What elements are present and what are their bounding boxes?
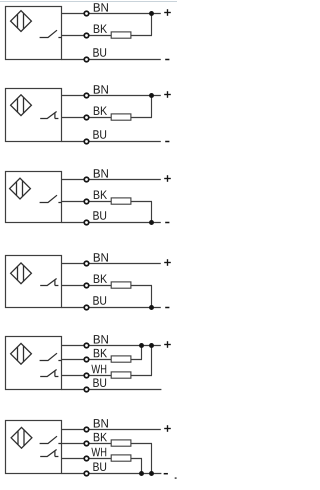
wire BK block 1 xyxy=(62,35,153,37)
wire BK block 5 xyxy=(62,359,143,361)
label WH block 6 xyxy=(91,448,106,456)
NO switch contact 3 xyxy=(40,195,62,202)
junction dot block 4 xyxy=(149,305,154,310)
wire WH block 5 xyxy=(62,375,153,377)
NC switch contact 6 xyxy=(40,450,58,457)
label BN block 3 xyxy=(94,169,108,177)
wire BK to minus rail block 3 xyxy=(151,202,153,223)
label BN block 2 xyxy=(94,85,108,93)
terminal BN block 4 xyxy=(84,261,89,266)
terminal BN block 1 xyxy=(84,11,89,16)
label BN block 4 xyxy=(94,253,108,261)
junction dot right block 6 xyxy=(149,471,154,476)
plus terminal block 1 xyxy=(164,12,171,14)
load resistor block 2 xyxy=(111,114,131,120)
sensor box 1 xyxy=(6,7,62,60)
stray mark bottom-right xyxy=(175,477,177,479)
load resistor block 3 xyxy=(111,198,131,204)
wire BU block 1 xyxy=(62,59,161,61)
wire BK block 2 xyxy=(62,117,153,119)
label WH block 5 xyxy=(91,365,106,373)
plus terminal block 2 xyxy=(164,94,171,96)
junction dot right block 5 xyxy=(149,343,154,348)
terminal BN block 5 xyxy=(84,343,89,348)
terminal BU block 5 xyxy=(84,387,89,392)
table border top line xyxy=(0,1,177,2)
sensor box 5 xyxy=(6,337,62,390)
wire BK block 4 xyxy=(62,285,153,287)
plus terminal block 6 xyxy=(164,428,171,430)
terminal WH block 6 xyxy=(84,456,89,461)
wire BK to plus rail block 1 xyxy=(151,14,153,36)
label BN block 5 xyxy=(94,335,108,343)
terminal BN block 2 xyxy=(84,93,89,98)
label BU block 6 xyxy=(93,463,106,472)
terminal BK block 3 xyxy=(84,199,89,204)
load resistor block 1 xyxy=(111,32,131,38)
wire BK to plus rail block 2 xyxy=(151,96,153,118)
terminal WH block 5 xyxy=(84,373,89,378)
terminal BK block 6 xyxy=(84,441,89,446)
wire BU block 3 xyxy=(62,222,161,224)
wire BK to minus rail block 4 xyxy=(151,286,153,308)
NC switch contact 4 xyxy=(40,279,58,286)
terminal BN block 3 xyxy=(84,177,89,182)
label BK block 1 xyxy=(94,25,107,33)
load resistor on WH block 6 xyxy=(111,455,131,461)
wire BN block 6 xyxy=(62,429,161,431)
NO switch contact 6 xyxy=(40,436,62,443)
wire BU block 4 xyxy=(62,307,161,309)
wire BN block 1 xyxy=(62,13,161,15)
terminal BU block 2 xyxy=(84,139,89,144)
terminal BU block 3 xyxy=(84,220,89,225)
plus terminal block 4 xyxy=(164,262,171,264)
wire BK to plus rail block 5 xyxy=(141,346,143,360)
wire BN block 3 xyxy=(62,179,161,181)
label BN block 6 xyxy=(94,419,108,427)
terminal BN block 6 xyxy=(84,427,89,432)
wire WH to plus rail block 5 xyxy=(151,346,153,376)
minus terminal block 3 xyxy=(165,222,169,224)
load resistor on WH block 5 xyxy=(111,372,131,378)
plus terminal block 5 xyxy=(164,344,171,346)
label BU block 5 xyxy=(93,379,106,388)
junction dot block 2 xyxy=(149,93,154,98)
junction dot left block 5 xyxy=(139,343,144,348)
junction dot left block 6 xyxy=(139,471,144,476)
label BK block 5 xyxy=(94,349,107,357)
minus terminal block 1 xyxy=(165,59,169,61)
label BK block 3 xyxy=(94,191,107,199)
proximity sensor symbol 6 xyxy=(11,427,32,448)
wire BK to minus rail block 6 xyxy=(151,444,153,474)
proximity sensor symbol 1 xyxy=(11,11,32,32)
terminal BU block 6 xyxy=(84,471,89,476)
sensor box 6 xyxy=(6,421,62,474)
label BU block 4 xyxy=(93,296,106,305)
terminal BU block 4 xyxy=(84,305,89,310)
plus terminal block 3 xyxy=(164,178,171,180)
minus terminal block 2 xyxy=(165,141,169,143)
label BU block 2 xyxy=(93,130,106,139)
label BK block 2 xyxy=(94,107,107,115)
junction dot block 1 xyxy=(149,11,154,16)
wire BN block 5 xyxy=(62,345,161,347)
NC switch contact 2 xyxy=(40,112,58,119)
wire BU block 5 xyxy=(62,389,162,391)
sensor box 4 xyxy=(6,256,62,308)
wire BN block 4 xyxy=(62,263,161,265)
terminal BK block 5 xyxy=(84,357,89,362)
label BK block 6 xyxy=(94,433,107,441)
wire BK block 6 xyxy=(62,443,153,445)
terminal BU block 1 xyxy=(84,57,89,62)
label BU block 1 xyxy=(93,48,106,57)
NO switch contact 1 xyxy=(40,30,62,37)
NC switch contact 5 xyxy=(40,370,58,377)
wire WH block 6 xyxy=(62,458,143,460)
label BK block 4 xyxy=(94,275,107,283)
minus terminal block 6 xyxy=(164,473,168,475)
wire BN block 2 xyxy=(62,95,161,97)
wire BU block 2 xyxy=(62,141,161,143)
proximity sensor symbol 2 xyxy=(11,95,32,116)
wire WH to minus rail block 6 xyxy=(141,459,143,474)
sensor box 2 xyxy=(6,89,62,142)
proximity sensor symbol 4 xyxy=(11,263,32,284)
load resistor block 4 xyxy=(111,282,131,288)
proximity sensor symbol 3 xyxy=(10,178,31,199)
terminal BK block 2 xyxy=(84,115,89,120)
proximity sensor symbol 5 xyxy=(11,343,32,364)
junction dot block 3 xyxy=(149,220,154,225)
load resistor on BK block 5 xyxy=(111,356,131,362)
NO switch contact 5 xyxy=(40,353,62,360)
terminal BK block 4 xyxy=(84,283,89,288)
minus terminal block 4 xyxy=(165,307,169,309)
wire BK block 3 xyxy=(62,201,153,203)
label BN block 1 xyxy=(94,3,108,11)
load resistor on BK block 6 xyxy=(111,440,131,446)
terminal BK block 1 xyxy=(84,33,89,38)
wire BU block 6 xyxy=(62,473,162,475)
label BU block 3 xyxy=(93,211,106,220)
sensor box 3 xyxy=(6,172,62,223)
